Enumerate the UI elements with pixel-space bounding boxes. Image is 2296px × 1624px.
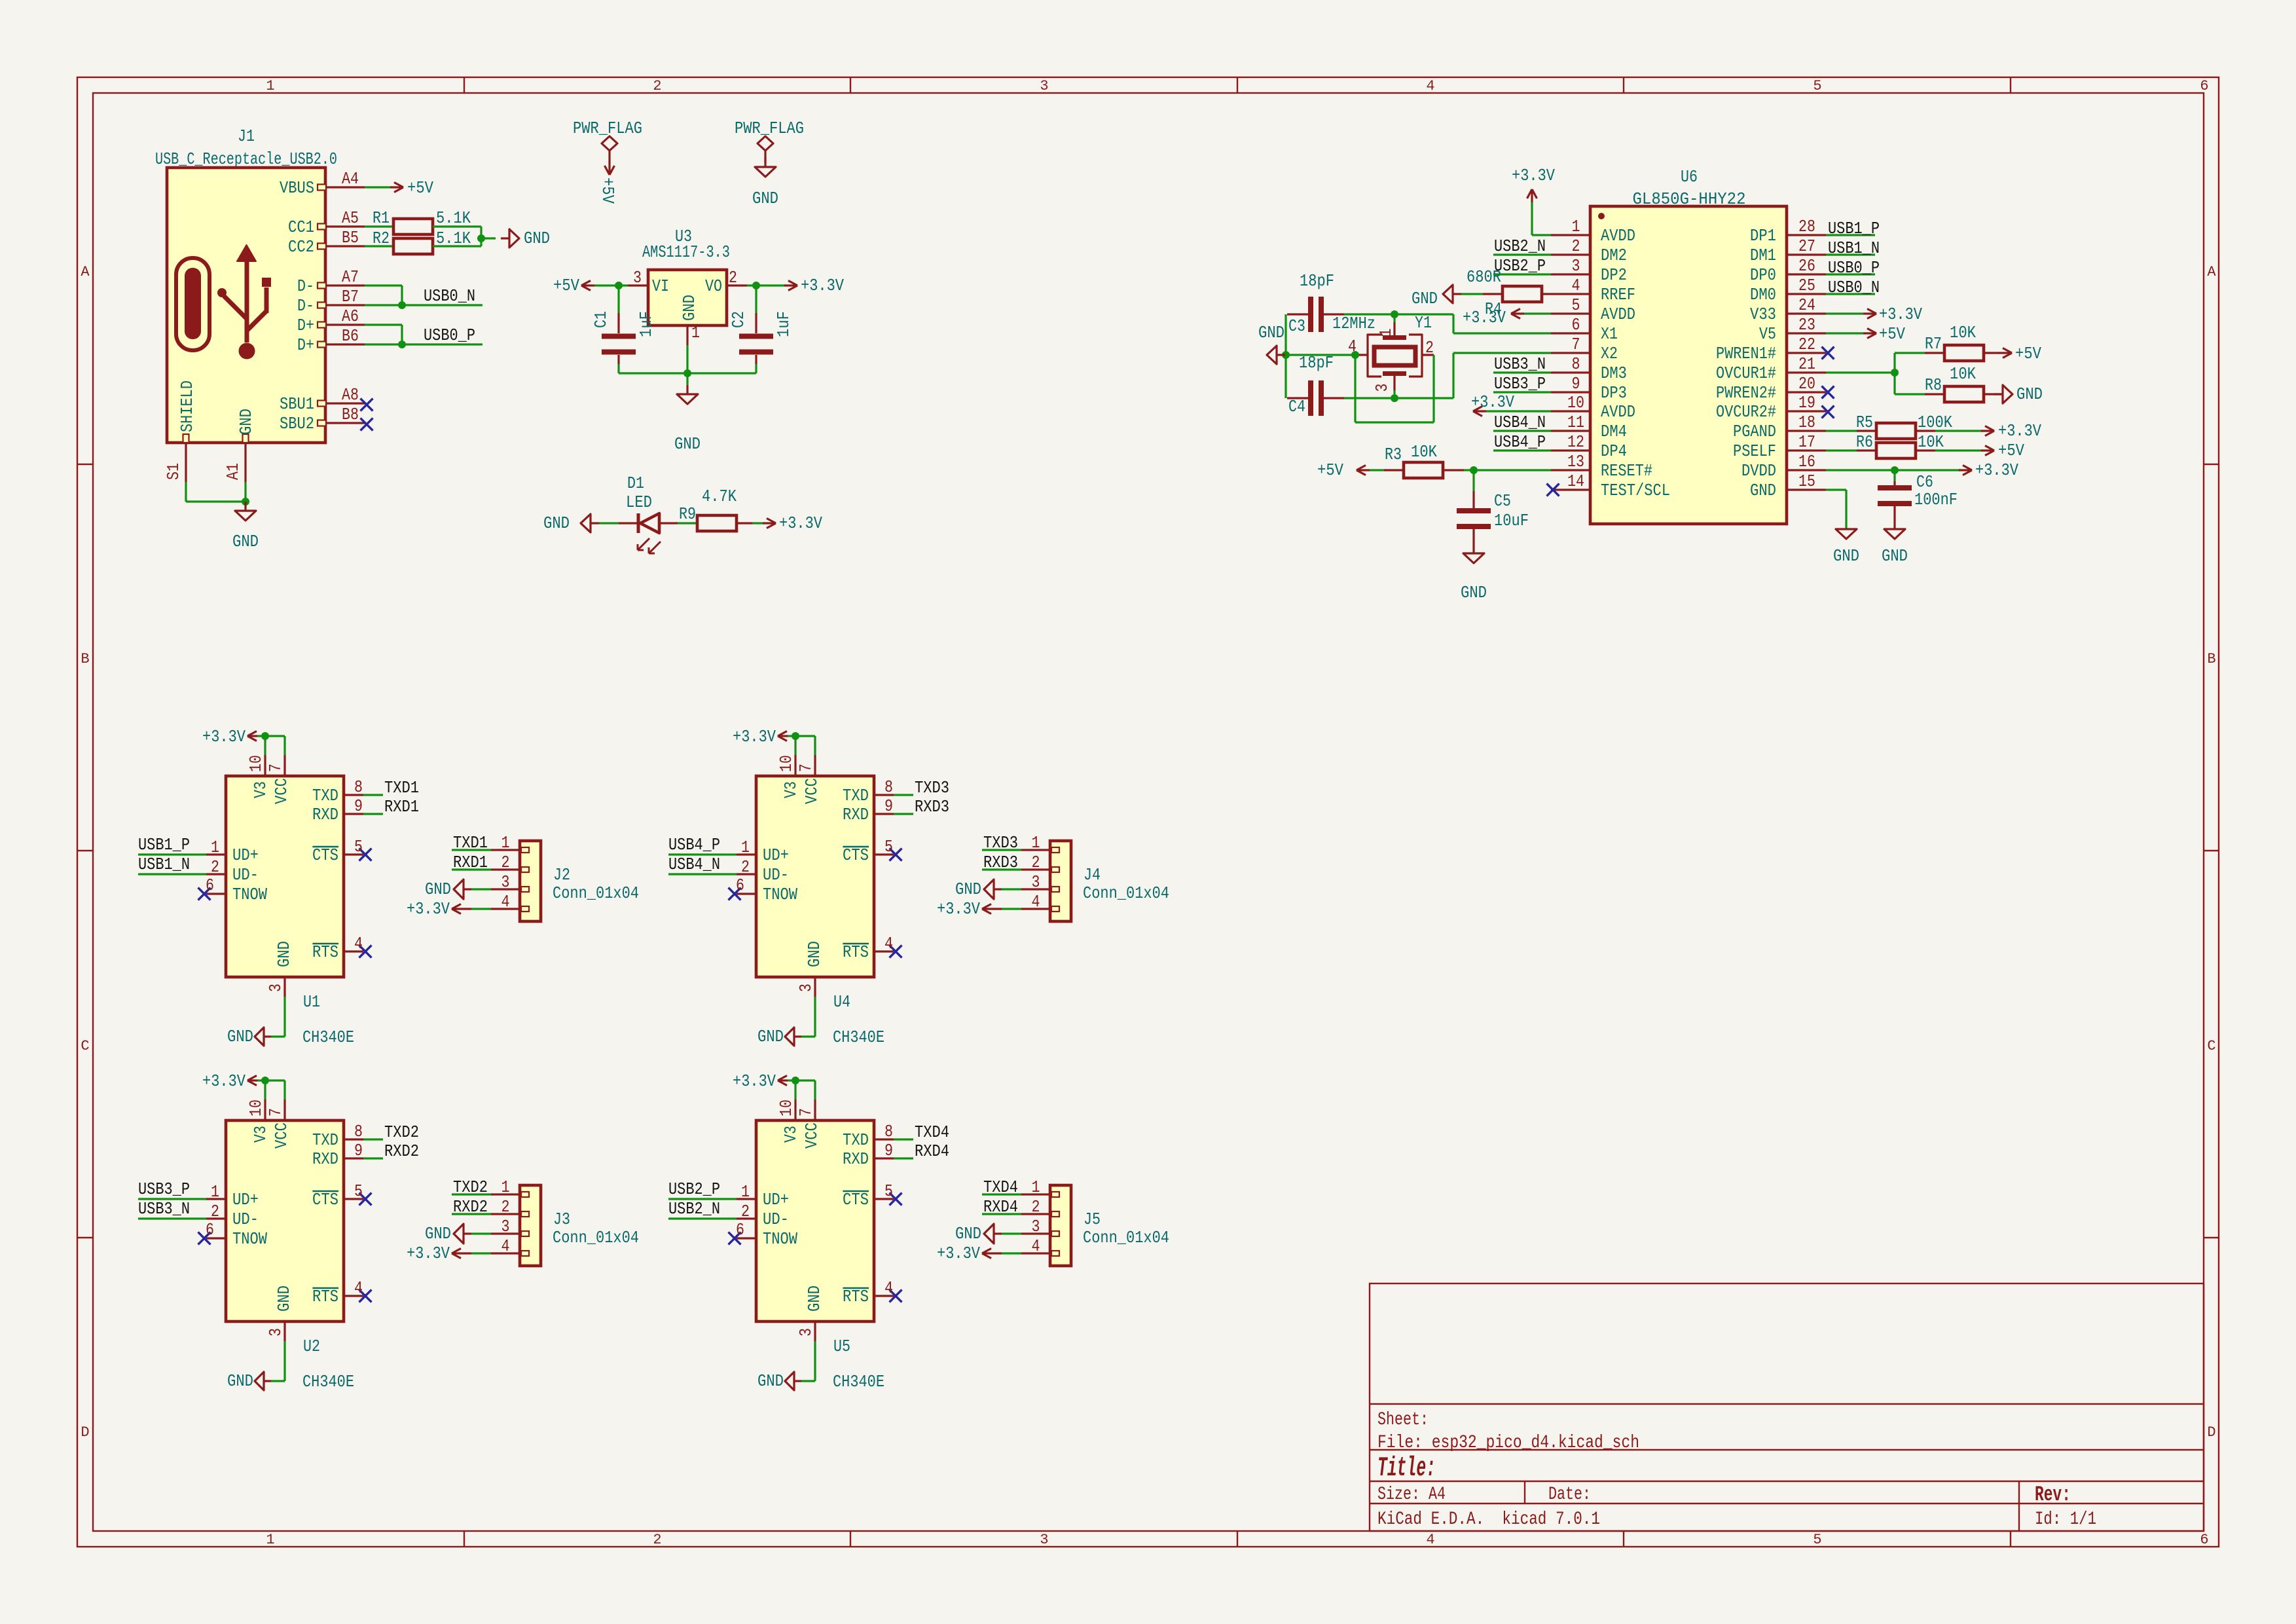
svg-text:C3: C3 bbox=[1288, 316, 1305, 336]
svg-text:10: 10 bbox=[246, 1099, 266, 1116]
svg-text:GND: GND bbox=[1750, 481, 1776, 500]
svg-text:3: 3 bbox=[1572, 256, 1580, 276]
svg-text:V3: V3 bbox=[781, 1126, 801, 1143]
svg-text:1: 1 bbox=[211, 1182, 219, 1202]
svg-text:DM3: DM3 bbox=[1601, 363, 1627, 383]
svg-text:PSELF: PSELF bbox=[1733, 441, 1776, 461]
svg-text:+3.3V: +3.3V bbox=[1471, 392, 1514, 412]
svg-text:7: 7 bbox=[796, 764, 816, 772]
svg-text:2: 2 bbox=[1032, 853, 1040, 872]
svg-text:A8: A8 bbox=[342, 385, 359, 405]
svg-text:V3: V3 bbox=[781, 781, 801, 798]
svg-text:GND: GND bbox=[1412, 289, 1438, 308]
svg-text:U1: U1 bbox=[303, 992, 320, 1012]
svg-text:U5: U5 bbox=[833, 1337, 850, 1356]
svg-text:VBUS: VBUS bbox=[280, 178, 314, 198]
svg-text:7: 7 bbox=[796, 1108, 816, 1116]
svg-text:+3.3V: +3.3V bbox=[801, 276, 844, 295]
svg-text:SHIELD: SHIELD bbox=[177, 380, 197, 432]
svg-text:4: 4 bbox=[1348, 337, 1357, 356]
svg-text:25: 25 bbox=[1798, 276, 1815, 295]
svg-text:+5V: +5V bbox=[553, 276, 579, 295]
svg-text:6: 6 bbox=[206, 1220, 214, 1240]
svg-text:GND: GND bbox=[274, 1285, 294, 1312]
svg-text:CTS: CTS bbox=[843, 1190, 869, 1209]
svg-text:3: 3 bbox=[266, 984, 285, 992]
svg-text:TXD: TXD bbox=[843, 1130, 869, 1150]
svg-text:A1: A1 bbox=[223, 463, 243, 480]
svg-text:+5V: +5V bbox=[1317, 460, 1343, 480]
svg-text:VCC: VCC bbox=[802, 778, 822, 804]
svg-text:RXD3: RXD3 bbox=[983, 853, 1018, 872]
svg-text:J2: J2 bbox=[553, 865, 570, 885]
svg-text:D+: D+ bbox=[297, 316, 314, 335]
svg-text:Y1: Y1 bbox=[1415, 313, 1432, 333]
svg-text:23: 23 bbox=[1798, 315, 1815, 335]
svg-text:GND: GND bbox=[232, 532, 259, 551]
svg-text:1: 1 bbox=[501, 1177, 510, 1197]
svg-text:RXD2: RXD2 bbox=[453, 1197, 488, 1217]
svg-text:X1: X1 bbox=[1601, 324, 1618, 344]
svg-text:1: 1 bbox=[1376, 329, 1396, 337]
svg-text:RXD4: RXD4 bbox=[915, 1141, 949, 1161]
svg-text:RXD: RXD bbox=[843, 1149, 869, 1169]
svg-text:R8: R8 bbox=[1925, 375, 1942, 395]
svg-text:V5: V5 bbox=[1759, 324, 1776, 344]
svg-text:USB2_N: USB2_N bbox=[1494, 236, 1546, 256]
svg-text:10: 10 bbox=[246, 755, 266, 772]
svg-text:5: 5 bbox=[354, 837, 363, 857]
svg-text:3: 3 bbox=[796, 1328, 816, 1337]
svg-text:27: 27 bbox=[1798, 236, 1815, 256]
svg-text:GND: GND bbox=[955, 1224, 981, 1244]
svg-text:UD-: UD- bbox=[763, 865, 789, 885]
svg-text:DM2: DM2 bbox=[1601, 246, 1627, 265]
svg-text:+3.3V: +3.3V bbox=[407, 1244, 450, 1263]
svg-text:UD-: UD- bbox=[232, 865, 259, 885]
svg-text:+3.3V: +3.3V bbox=[202, 1071, 246, 1091]
svg-text:R7: R7 bbox=[1925, 334, 1942, 354]
svg-text:VCC: VCC bbox=[272, 1122, 291, 1149]
svg-text:PGAND: PGAND bbox=[1733, 422, 1776, 441]
svg-text:USB1_P: USB1_P bbox=[138, 835, 190, 855]
svg-text:10K: 10K bbox=[1950, 323, 1976, 342]
svg-text:Conn_01x04: Conn_01x04 bbox=[553, 1228, 639, 1247]
svg-text:10: 10 bbox=[1567, 393, 1584, 413]
svg-text:CTS: CTS bbox=[312, 1190, 338, 1209]
svg-text:GND: GND bbox=[752, 189, 778, 208]
svg-text:RXD2: RXD2 bbox=[384, 1141, 419, 1161]
svg-text:GND: GND bbox=[680, 295, 699, 321]
svg-text:TNOW: TNOW bbox=[232, 885, 267, 904]
svg-text:8: 8 bbox=[884, 1122, 893, 1141]
svg-text:3: 3 bbox=[1040, 78, 1048, 94]
svg-text:TNOW: TNOW bbox=[232, 1229, 267, 1249]
svg-text:D+: D+ bbox=[297, 335, 314, 355]
svg-text:15: 15 bbox=[1798, 471, 1815, 491]
svg-text:7: 7 bbox=[266, 764, 285, 772]
svg-text:GND: GND bbox=[805, 1285, 824, 1312]
svg-text:V33: V33 bbox=[1750, 304, 1776, 324]
svg-text:2: 2 bbox=[653, 78, 661, 94]
svg-text:V3: V3 bbox=[251, 1126, 270, 1143]
svg-text:D1: D1 bbox=[627, 473, 644, 493]
svg-text:TXD3: TXD3 bbox=[983, 833, 1018, 853]
svg-text:4: 4 bbox=[501, 892, 510, 912]
svg-text:RXD4: RXD4 bbox=[983, 1197, 1018, 1217]
svg-text:R3: R3 bbox=[1385, 445, 1402, 464]
svg-text:2: 2 bbox=[1032, 1197, 1040, 1217]
svg-text:24: 24 bbox=[1798, 295, 1815, 315]
svg-text:USB0_P: USB0_P bbox=[1828, 258, 1880, 278]
svg-text:4: 4 bbox=[1572, 276, 1580, 295]
svg-text:B5: B5 bbox=[342, 228, 359, 248]
svg-text:2: 2 bbox=[501, 1197, 510, 1217]
svg-text:Id: 1/1: Id: 1/1 bbox=[2035, 1509, 2096, 1530]
svg-text:A7: A7 bbox=[342, 267, 359, 287]
svg-text:+3.3V: +3.3V bbox=[733, 1071, 776, 1091]
svg-text:SBU1: SBU1 bbox=[280, 394, 314, 414]
svg-text:UD+: UD+ bbox=[763, 845, 789, 865]
svg-text:USB2_P: USB2_P bbox=[668, 1179, 720, 1199]
svg-text:GND: GND bbox=[757, 1027, 784, 1046]
svg-text:TXD: TXD bbox=[312, 786, 338, 805]
svg-text:B: B bbox=[81, 651, 89, 667]
svg-text:TXD4: TXD4 bbox=[915, 1122, 949, 1142]
svg-text:5: 5 bbox=[1572, 295, 1580, 315]
svg-text:GND: GND bbox=[1882, 546, 1908, 566]
svg-text:2: 2 bbox=[1425, 338, 1434, 358]
svg-text:3: 3 bbox=[266, 1328, 285, 1337]
svg-text:GND: GND bbox=[227, 1027, 253, 1046]
svg-text:RTS: RTS bbox=[312, 1287, 338, 1306]
svg-text:RXD: RXD bbox=[843, 805, 869, 824]
svg-text:USB1_P: USB1_P bbox=[1828, 219, 1880, 238]
svg-text:J1: J1 bbox=[238, 126, 255, 146]
svg-text:A5: A5 bbox=[342, 208, 359, 228]
svg-text:1: 1 bbox=[266, 78, 274, 94]
svg-text:USB1_N: USB1_N bbox=[1828, 238, 1880, 258]
svg-text:R1: R1 bbox=[373, 208, 390, 228]
svg-text:4: 4 bbox=[354, 934, 363, 953]
svg-text:RXD1: RXD1 bbox=[453, 853, 488, 872]
svg-text:Date:: Date: bbox=[1548, 1485, 1591, 1505]
svg-text:20: 20 bbox=[1798, 374, 1815, 394]
svg-text:4: 4 bbox=[884, 934, 893, 953]
svg-text:TXD: TXD bbox=[312, 1130, 338, 1150]
svg-text:PWREN2#: PWREN2# bbox=[1716, 383, 1776, 403]
svg-text:R9: R9 bbox=[679, 504, 696, 524]
svg-text:9: 9 bbox=[354, 796, 363, 816]
svg-text:A6: A6 bbox=[342, 306, 359, 326]
svg-text:GND: GND bbox=[1833, 546, 1859, 566]
svg-text:USB0_P: USB0_P bbox=[424, 325, 475, 345]
svg-text:CTS: CTS bbox=[843, 845, 869, 865]
svg-text:D: D bbox=[2207, 1424, 2215, 1441]
svg-text:USB4_P: USB4_P bbox=[668, 835, 720, 855]
svg-text:VCC: VCC bbox=[272, 778, 291, 804]
svg-text:3: 3 bbox=[501, 872, 510, 892]
svg-text:5.1K: 5.1K bbox=[436, 208, 471, 228]
svg-text:TNOW: TNOW bbox=[763, 885, 797, 904]
svg-text:J4: J4 bbox=[1084, 865, 1101, 885]
svg-text:680R: 680R bbox=[1467, 267, 1501, 287]
svg-text:RTS: RTS bbox=[843, 1287, 869, 1306]
svg-text:AVDD: AVDD bbox=[1601, 226, 1635, 246]
svg-text:1uF: 1uF bbox=[774, 311, 793, 337]
svg-text:UD+: UD+ bbox=[232, 845, 259, 865]
svg-text:C1: C1 bbox=[591, 311, 611, 328]
svg-text:GND: GND bbox=[805, 941, 824, 967]
svg-text:3: 3 bbox=[1032, 872, 1040, 892]
svg-text:D-: D- bbox=[297, 296, 314, 316]
svg-text:USB4_P: USB4_P bbox=[1494, 432, 1546, 452]
svg-text:21: 21 bbox=[1798, 354, 1815, 374]
svg-text:TXD: TXD bbox=[843, 786, 869, 805]
svg-text:4: 4 bbox=[501, 1236, 510, 1256]
svg-text:+3.3V: +3.3V bbox=[1998, 421, 2041, 441]
svg-text:R2: R2 bbox=[373, 229, 390, 248]
svg-text:5: 5 bbox=[884, 837, 893, 857]
svg-text:KiCad E.D.A. kicad 7.0.1: KiCad E.D.A. kicad 7.0.1 bbox=[1377, 1509, 1600, 1530]
svg-text:VO: VO bbox=[705, 276, 722, 296]
svg-text:22: 22 bbox=[1798, 335, 1815, 354]
svg-text:+3.3V: +3.3V bbox=[1879, 304, 1922, 324]
svg-text:D: D bbox=[81, 1424, 89, 1441]
svg-text:5: 5 bbox=[1813, 1532, 1821, 1548]
svg-text:3: 3 bbox=[1372, 384, 1392, 392]
svg-text:4: 4 bbox=[1426, 1532, 1434, 1548]
svg-text:10uF: 10uF bbox=[1494, 511, 1529, 530]
svg-text:10K: 10K bbox=[1950, 364, 1976, 384]
svg-text:3: 3 bbox=[1040, 1532, 1048, 1548]
svg-text:Sheet:: Sheet: bbox=[1377, 1410, 1429, 1430]
svg-text:GND: GND bbox=[2016, 384, 2043, 404]
svg-text:RXD: RXD bbox=[312, 805, 338, 824]
svg-text:AMS1117-3.3: AMS1117-3.3 bbox=[642, 242, 730, 262]
svg-text:17: 17 bbox=[1798, 432, 1815, 452]
svg-text:RTS: RTS bbox=[843, 942, 869, 962]
svg-text:Title:: Title: bbox=[1377, 1452, 1436, 1484]
svg-text:+3.3V: +3.3V bbox=[1975, 460, 2018, 480]
svg-text:TEST/SCL: TEST/SCL bbox=[1601, 481, 1670, 500]
svg-text:GND: GND bbox=[543, 513, 570, 533]
svg-text:5: 5 bbox=[884, 1181, 893, 1201]
svg-text:4: 4 bbox=[1032, 892, 1040, 912]
svg-text:DM4: DM4 bbox=[1601, 422, 1627, 441]
svg-text:GND: GND bbox=[524, 229, 550, 248]
svg-text:DVDD: DVDD bbox=[1741, 461, 1776, 481]
svg-text:B: B bbox=[2207, 651, 2215, 667]
svg-text:A: A bbox=[81, 264, 90, 280]
svg-text:6: 6 bbox=[1572, 315, 1580, 335]
svg-text:AVDD: AVDD bbox=[1601, 304, 1635, 324]
svg-text:1uF: 1uF bbox=[636, 311, 656, 337]
svg-text:U4: U4 bbox=[833, 992, 850, 1012]
svg-text:1: 1 bbox=[1032, 1177, 1040, 1197]
svg-text:12MHz: 12MHz bbox=[1332, 314, 1376, 333]
svg-text:26: 26 bbox=[1798, 256, 1815, 276]
svg-text:4: 4 bbox=[354, 1278, 363, 1298]
svg-text:7: 7 bbox=[1572, 335, 1580, 354]
svg-text:J5: J5 bbox=[1084, 1209, 1101, 1229]
svg-text:J3: J3 bbox=[553, 1209, 570, 1229]
svg-text:6: 6 bbox=[206, 876, 214, 895]
svg-text:R6: R6 bbox=[1856, 432, 1873, 452]
svg-text:UD-: UD- bbox=[763, 1209, 789, 1229]
svg-text:TXD1: TXD1 bbox=[384, 778, 419, 798]
svg-text:USB0_N: USB0_N bbox=[1828, 278, 1880, 297]
svg-text:LED: LED bbox=[626, 492, 652, 512]
svg-text:8: 8 bbox=[354, 777, 363, 797]
svg-text:X2: X2 bbox=[1601, 344, 1618, 363]
svg-text:4.7K: 4.7K bbox=[702, 487, 737, 506]
svg-text:GND: GND bbox=[425, 1224, 451, 1244]
svg-text:Conn_01x04: Conn_01x04 bbox=[1083, 883, 1169, 903]
svg-text:USB1_N: USB1_N bbox=[138, 855, 190, 874]
svg-text:4: 4 bbox=[884, 1278, 893, 1298]
svg-text:USB2_P: USB2_P bbox=[1494, 256, 1546, 276]
svg-text:RXD1: RXD1 bbox=[384, 797, 419, 817]
svg-text:VI: VI bbox=[652, 276, 669, 296]
svg-text:6: 6 bbox=[736, 876, 744, 895]
svg-text:DP0: DP0 bbox=[1750, 265, 1776, 285]
svg-text:18pF: 18pF bbox=[1300, 271, 1334, 291]
svg-text:USB3_P: USB3_P bbox=[1494, 374, 1546, 394]
svg-text:CTS: CTS bbox=[312, 845, 338, 865]
svg-text:SBU2: SBU2 bbox=[280, 414, 314, 434]
svg-text:10K: 10K bbox=[1411, 442, 1437, 462]
svg-text:CH340E: CH340E bbox=[302, 1372, 354, 1392]
svg-text:+5V: +5V bbox=[2015, 344, 2041, 363]
svg-text:TXD2: TXD2 bbox=[453, 1177, 488, 1197]
svg-text:1: 1 bbox=[1032, 833, 1040, 853]
svg-text:2: 2 bbox=[211, 857, 219, 877]
svg-text:2: 2 bbox=[741, 857, 750, 877]
svg-text:DP4: DP4 bbox=[1601, 441, 1627, 461]
svg-text:USB_C_Receptacle_USB2.0: USB_C_Receptacle_USB2.0 bbox=[155, 149, 337, 169]
svg-text:3: 3 bbox=[1032, 1217, 1040, 1236]
svg-text:6: 6 bbox=[736, 1220, 744, 1240]
svg-text:GND: GND bbox=[757, 1371, 784, 1391]
svg-text:2: 2 bbox=[501, 853, 510, 872]
svg-text:Rev:: Rev: bbox=[2035, 1483, 2071, 1507]
svg-text:3: 3 bbox=[501, 1217, 510, 1236]
svg-text:U6: U6 bbox=[1681, 167, 1698, 187]
svg-text:USB3_N: USB3_N bbox=[1494, 354, 1546, 374]
svg-text:RESET#: RESET# bbox=[1601, 461, 1652, 481]
svg-text:TXD3: TXD3 bbox=[915, 778, 949, 798]
svg-text:A4: A4 bbox=[342, 169, 359, 189]
svg-text:1: 1 bbox=[741, 838, 750, 857]
svg-text:9: 9 bbox=[1572, 374, 1580, 394]
svg-text:1: 1 bbox=[266, 1532, 274, 1548]
svg-text:GND: GND bbox=[274, 941, 294, 967]
svg-text:U2: U2 bbox=[303, 1337, 320, 1356]
svg-text:TXD4: TXD4 bbox=[983, 1177, 1018, 1197]
svg-text:GND: GND bbox=[955, 879, 981, 899]
svg-text:12: 12 bbox=[1567, 432, 1584, 452]
svg-text:14: 14 bbox=[1567, 471, 1584, 491]
svg-text:C4: C4 bbox=[1288, 397, 1305, 416]
svg-text:V3: V3 bbox=[251, 781, 270, 798]
svg-text:OVCUR1#: OVCUR1# bbox=[1716, 363, 1776, 383]
svg-text:18: 18 bbox=[1798, 413, 1815, 432]
svg-text:DM0: DM0 bbox=[1750, 285, 1776, 304]
svg-text:DP3: DP3 bbox=[1601, 383, 1627, 403]
svg-text:PWR_FLAG: PWR_FLAG bbox=[735, 119, 804, 138]
svg-text:RREF: RREF bbox=[1601, 285, 1635, 304]
svg-text:RXD3: RXD3 bbox=[915, 797, 949, 817]
svg-text:CC1: CC1 bbox=[288, 217, 314, 237]
svg-text:28: 28 bbox=[1798, 217, 1815, 236]
svg-text:16: 16 bbox=[1798, 452, 1815, 471]
svg-text:+3.3V: +3.3V bbox=[779, 513, 822, 533]
svg-text:9: 9 bbox=[884, 1141, 893, 1160]
svg-text:USB2_N: USB2_N bbox=[668, 1199, 720, 1219]
svg-text:2: 2 bbox=[211, 1202, 219, 1221]
svg-text:D-: D- bbox=[297, 276, 314, 296]
svg-text:AVDD: AVDD bbox=[1601, 402, 1635, 422]
svg-text:USB4_N: USB4_N bbox=[1494, 413, 1546, 432]
svg-text:TNOW: TNOW bbox=[763, 1229, 797, 1249]
svg-text:GND: GND bbox=[227, 1371, 253, 1391]
svg-text:B8: B8 bbox=[342, 405, 359, 424]
svg-text:GND: GND bbox=[1461, 583, 1487, 602]
svg-text:GND: GND bbox=[1258, 323, 1285, 342]
svg-text:100K: 100K bbox=[1918, 413, 1952, 432]
svg-text:+3.3V: +3.3V bbox=[733, 727, 776, 747]
svg-text:1: 1 bbox=[211, 838, 219, 857]
svg-text:5: 5 bbox=[1813, 78, 1821, 94]
svg-text:100nF: 100nF bbox=[1914, 490, 1958, 509]
svg-text:10: 10 bbox=[776, 1099, 796, 1116]
svg-text:1: 1 bbox=[1572, 217, 1580, 236]
svg-text:13: 13 bbox=[1567, 452, 1584, 471]
svg-text:DM1: DM1 bbox=[1750, 246, 1776, 265]
svg-text:+5V: +5V bbox=[407, 178, 433, 198]
svg-text:+5V: +5V bbox=[1879, 324, 1905, 344]
svg-text:7: 7 bbox=[266, 1108, 285, 1116]
svg-text:GND: GND bbox=[674, 434, 701, 454]
svg-text:PWR_FLAG: PWR_FLAG bbox=[573, 119, 642, 138]
svg-text:RTS: RTS bbox=[312, 942, 338, 962]
svg-text:4: 4 bbox=[1426, 78, 1434, 94]
svg-text:C5: C5 bbox=[1494, 491, 1511, 511]
svg-text:DP1: DP1 bbox=[1750, 226, 1776, 246]
svg-text:10K: 10K bbox=[1918, 432, 1944, 452]
svg-text:UD-: UD- bbox=[232, 1209, 259, 1229]
svg-text:GND: GND bbox=[236, 409, 256, 435]
svg-text:6: 6 bbox=[2200, 1532, 2208, 1548]
svg-text:2: 2 bbox=[1572, 236, 1580, 256]
svg-text:9: 9 bbox=[354, 1141, 363, 1160]
svg-text:A: A bbox=[2207, 264, 2216, 280]
svg-text:8: 8 bbox=[884, 777, 893, 797]
svg-text:CC2: CC2 bbox=[288, 237, 314, 257]
svg-text:+3.3V: +3.3V bbox=[407, 899, 450, 919]
svg-text:TXD2: TXD2 bbox=[384, 1122, 419, 1142]
svg-text:+3.3V: +3.3V bbox=[937, 1244, 980, 1263]
svg-text:USB4_N: USB4_N bbox=[668, 855, 720, 874]
svg-text:DP2: DP2 bbox=[1601, 265, 1627, 285]
svg-text:UD+: UD+ bbox=[763, 1190, 789, 1209]
svg-text:R5: R5 bbox=[1856, 413, 1873, 432]
svg-text:USB0_N: USB0_N bbox=[424, 286, 475, 306]
svg-text:4: 4 bbox=[1032, 1236, 1040, 1256]
svg-text:+5V: +5V bbox=[1998, 441, 2024, 460]
svg-text:+3.3V: +3.3V bbox=[202, 727, 246, 747]
